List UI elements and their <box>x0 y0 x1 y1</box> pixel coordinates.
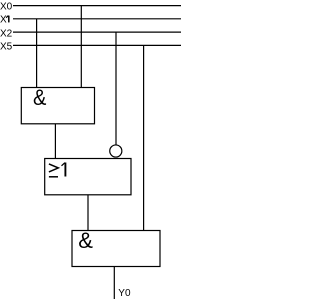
wire X1 to AND1 input <box>36 19 38 88</box>
wire AND1 output to OR1 input <box>54 124 56 159</box>
wire X0 net <box>13 5 181 7</box>
svg-text:&: & <box>33 86 46 110</box>
inverter bubble on OR1 input <box>110 145 122 157</box>
wire X2 net <box>13 31 181 33</box>
svg-text:X: X <box>0 15 7 26</box>
wire AND2 output Y0 <box>113 267 115 300</box>
wire X2 to inverter bubble <box>115 32 117 145</box>
wire X5 to AND2 input <box>143 45 145 230</box>
svg-text:X0: X0 <box>0 2 13 13</box>
wire X5 net <box>13 44 181 46</box>
svg-text:&: & <box>78 228 93 253</box>
svg-text:Y0: Y0 <box>118 288 131 299</box>
and-gate AND1 body <box>21 88 94 124</box>
node X1 <box>0 15 9 26</box>
svg-text:X5: X5 <box>0 42 13 53</box>
or-gate OR1 body <box>45 159 131 195</box>
wire X0 to AND1 input <box>80 6 82 88</box>
wire X1 net <box>13 18 181 20</box>
or-gate OR1 label >=1 <box>49 163 66 177</box>
and-gate AND2 body <box>72 231 160 267</box>
wire OR1 output to AND2 input <box>87 195 89 231</box>
svg-text:X2: X2 <box>0 28 13 39</box>
